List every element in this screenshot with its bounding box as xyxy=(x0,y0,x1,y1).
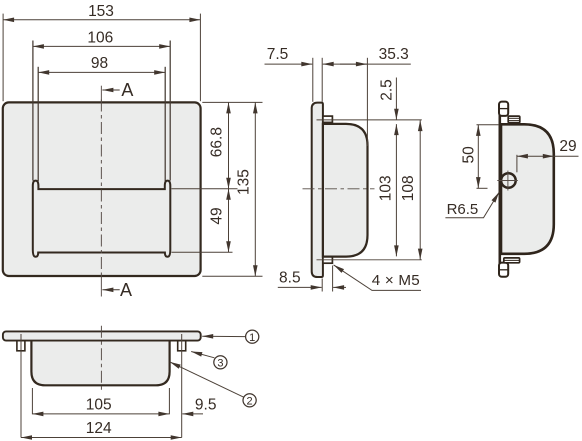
section line top segment xyxy=(100,86,102,103)
svg-text:1: 1 xyxy=(249,332,255,344)
extension line plate top right xyxy=(202,101,262,103)
stud left bottom view xyxy=(17,341,25,351)
recess pocket edge left inner xyxy=(37,67,39,181)
29 reference line at hole edge xyxy=(516,155,518,173)
svg-text:103: 103 xyxy=(377,175,394,201)
dimension 106 xyxy=(33,45,170,47)
dimension 8.5 right arrow xyxy=(333,286,346,288)
recess pocket edge right inner xyxy=(164,67,166,181)
flange bottom hook xyxy=(499,263,508,277)
section line bottom segment xyxy=(100,276,102,296)
dimension 49 xyxy=(228,189,230,253)
svg-text:7.5: 7.5 xyxy=(267,46,289,63)
dimension 2.5 upper line xyxy=(395,78,397,120)
extension line stud right xyxy=(181,334,183,438)
tray side outline xyxy=(323,124,368,257)
svg-text:A: A xyxy=(120,280,132,300)
leader 4xM5 xyxy=(334,265,421,291)
svg-text:49: 49 xyxy=(208,207,225,224)
dimension 108 xyxy=(419,120,421,260)
dimension 66.8 xyxy=(228,102,230,188)
extension line flange back lower xyxy=(321,279,323,292)
callout 3 circle xyxy=(214,356,227,369)
callout 3 leader xyxy=(191,352,214,358)
svg-text:29: 29 xyxy=(559,138,576,155)
svg-text:A: A xyxy=(121,80,133,100)
centerline side view xyxy=(303,188,375,190)
dimension 153 extension lines xyxy=(2,14,4,102)
stud top right view xyxy=(508,116,520,123)
dimension 35.3 line xyxy=(323,63,411,65)
callout 2 circle xyxy=(243,394,256,407)
extension line flange back xyxy=(321,58,323,102)
dimension 9.5 arrow xyxy=(182,413,203,415)
stud right bottom view xyxy=(178,341,186,351)
section arrow A top xyxy=(102,89,119,91)
dimension 124 xyxy=(21,437,182,439)
extension line hole bottom xyxy=(477,187,488,189)
svg-text:98: 98 xyxy=(91,55,108,72)
plate outline 153x135 xyxy=(3,102,201,276)
stud bottom right view xyxy=(504,258,520,263)
svg-text:9.5: 9.5 xyxy=(195,397,217,414)
stud axis extension top xyxy=(317,119,422,121)
recess pocket edge left outer xyxy=(32,41,34,181)
dimension 105 xyxy=(32,413,169,415)
svg-text:2: 2 xyxy=(247,395,253,407)
svg-text:4 × M5: 4 × M5 xyxy=(372,272,420,289)
extension line plate bottom right xyxy=(202,275,262,277)
svg-text:2.5: 2.5 xyxy=(378,79,395,101)
flange top hook xyxy=(499,102,508,116)
tray right view outline xyxy=(501,124,554,254)
stud top mid line xyxy=(508,117,520,119)
stud bottom mid line xyxy=(504,259,520,261)
callout 2 leader xyxy=(170,362,244,397)
svg-text:66.8: 66.8 xyxy=(208,127,225,157)
extension line tray left xyxy=(31,388,33,414)
callout 1 circle xyxy=(246,330,259,343)
svg-text:35.3: 35.3 xyxy=(379,46,409,63)
svg-text:105: 105 xyxy=(86,397,112,414)
stud axis extension bottom xyxy=(317,259,422,261)
extension line flange front xyxy=(312,58,314,102)
extension line tray right xyxy=(168,388,170,414)
svg-text:3: 3 xyxy=(217,357,223,369)
dimension 29 tail xyxy=(554,155,579,157)
svg-text:R6.5: R6.5 xyxy=(447,201,479,218)
stud bottom side xyxy=(323,257,333,263)
hook top inner line xyxy=(500,108,508,110)
svg-text:106: 106 xyxy=(87,29,113,46)
hook bottom inner line xyxy=(500,269,508,271)
extension line grip bottom right xyxy=(172,251,233,253)
tray bottom view xyxy=(31,340,169,385)
plate slab bottom view xyxy=(3,331,201,340)
stud top side xyxy=(323,116,333,122)
svg-text:153: 153 xyxy=(88,3,114,20)
hole centerline vertical xyxy=(507,171,509,191)
section centerline A-A xyxy=(100,100,102,280)
leader R6.5 xyxy=(445,192,499,218)
dimension 50 xyxy=(477,125,479,188)
extension line tray top left xyxy=(477,124,500,126)
grip hole R6.5 xyxy=(501,173,516,188)
flange edge line xyxy=(498,104,501,274)
recess pocket edge right outer xyxy=(169,41,171,181)
dimension 29 xyxy=(517,155,554,157)
extension line stud end lower xyxy=(332,266,334,292)
svg-text:135: 135 xyxy=(235,169,252,195)
hole centerline horizontal xyxy=(497,180,518,182)
extension line grip top right xyxy=(172,188,238,190)
dimension 103 xyxy=(395,124,397,256)
svg-text:8.5: 8.5 xyxy=(279,270,301,287)
extension line stud left xyxy=(20,334,22,438)
grip frame with hairpin lips xyxy=(33,181,171,257)
flange plate side xyxy=(312,103,323,277)
svg-text:108: 108 xyxy=(400,175,417,201)
extension line tray back xyxy=(366,58,368,146)
dimension 7.5 left line xyxy=(265,63,313,65)
dimension 135 xyxy=(254,102,256,276)
section arrow A bottom xyxy=(102,289,119,291)
callout 1 leader xyxy=(202,335,245,337)
svg-text:124: 124 xyxy=(86,420,112,437)
dimension 35.3 right arrow xyxy=(340,63,367,65)
centerline bottom view xyxy=(100,326,102,392)
svg-text:50: 50 xyxy=(461,146,478,164)
dimension 98 xyxy=(38,71,165,73)
dimension 8.5 left line xyxy=(278,286,322,288)
dimension 153 xyxy=(3,19,200,21)
